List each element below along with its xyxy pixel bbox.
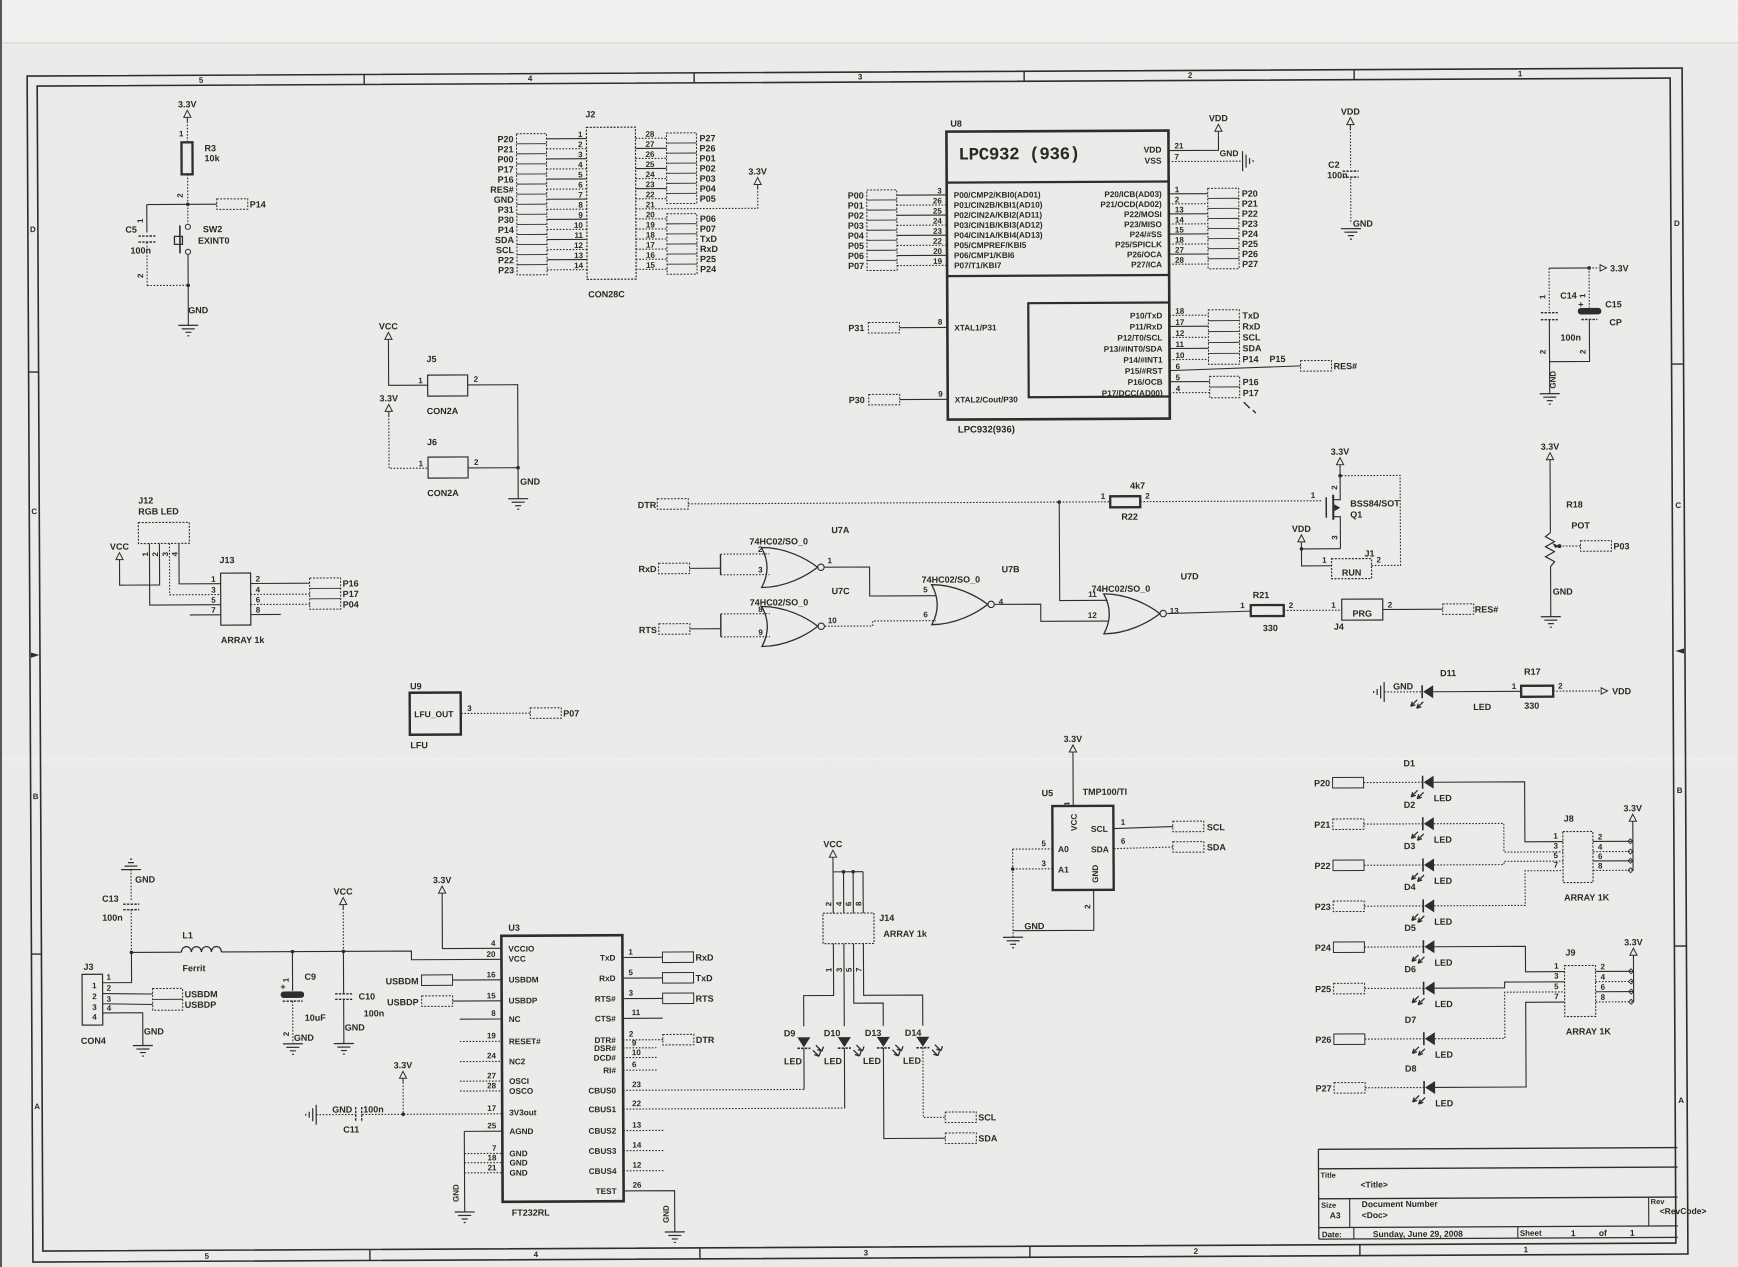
svg-text:R18: R18 (1566, 500, 1583, 510)
svg-text:P24/#SS: P24/#SS (1130, 230, 1163, 239)
svg-text:22: 22 (632, 1099, 641, 1108)
svg-text:GND: GND (1091, 865, 1100, 883)
svg-text:VDD: VDD (1209, 113, 1229, 123)
svg-text:P07/T1/KBI7: P07/T1/KBI7 (954, 261, 1002, 270)
svg-text:1: 1 (1553, 832, 1558, 841)
wire DTR to R22 (688, 500, 1110, 506)
svg-text:2: 2 (176, 193, 185, 198)
svg-text:CON2A: CON2A (427, 406, 459, 416)
svg-text:7: 7 (578, 191, 583, 200)
net tag P24 (1315, 942, 1424, 953)
svg-text:SCL: SCL (496, 245, 515, 255)
svg-text:D: D (30, 225, 36, 234)
net tag P26 (1315, 1034, 1424, 1045)
svg-text:24: 24 (487, 1051, 496, 1060)
svg-text:3: 3 (629, 989, 634, 998)
svg-text:P16: P16 (1243, 377, 1259, 387)
svg-text:USBDP: USBDP (509, 996, 538, 1005)
svg-text:18: 18 (646, 231, 655, 240)
svg-text:P24: P24 (700, 264, 716, 274)
svg-text:P17: P17 (343, 589, 359, 599)
svg-text:GND: GND (494, 195, 515, 205)
svg-text:GND: GND (345, 1022, 366, 1032)
svg-text:GND: GND (294, 1033, 315, 1043)
svg-text:74HC02/SO_0: 74HC02/SO_0 (1092, 584, 1151, 594)
svg-text:P17/DCC(AD00): P17/DCC(AD00) (1102, 389, 1163, 398)
svg-text:18: 18 (1175, 236, 1184, 245)
svg-text:1: 1 (1240, 601, 1245, 610)
U3 RTS# to RTS tag (623, 988, 714, 1004)
connector J12 RGB LED (138, 495, 189, 556)
svg-text:P23/MISO: P23/MISO (1124, 220, 1162, 229)
svg-text:A: A (34, 1102, 40, 1111)
net tag P23 (1315, 901, 1424, 912)
svg-text:PRG: PRG (1352, 609, 1372, 619)
power VCC (J12) (110, 541, 160, 585)
svg-text:5: 5 (923, 585, 928, 594)
svg-text:4: 4 (835, 901, 844, 906)
ground GND (C14/C15) (1540, 362, 1560, 405)
svg-text:RI#: RI# (603, 1066, 616, 1075)
svg-text:RxD: RxD (639, 564, 658, 574)
svg-text:<RevCode>: <RevCode> (1660, 1206, 1707, 1216)
svg-text:D4: D4 (1404, 882, 1416, 892)
svg-text:2: 2 (1558, 682, 1563, 691)
svg-text:LPC932 (936): LPC932 (936) (958, 145, 1079, 166)
svg-text:P01: P01 (848, 201, 864, 211)
net tag P03 (1580, 541, 1629, 552)
svg-text:RTS: RTS (696, 994, 714, 1004)
svg-text:USBDP: USBDP (185, 1000, 217, 1010)
svg-text:21: 21 (1174, 141, 1183, 150)
NOR gate U7C 74HC02 (721, 586, 851, 647)
net tag P31 / XTAL1 (848, 317, 997, 333)
diode D2 LED (1404, 800, 1453, 845)
IC U8 LPC932(936) body (946, 118, 1170, 436)
connector J6 CON2A (418, 437, 520, 498)
svg-text:2: 2 (151, 551, 160, 556)
svg-text:SCL: SCL (1207, 822, 1226, 832)
U8 serial port pins P10-P17 (1101, 307, 1208, 398)
svg-text:CBUS2: CBUS2 (589, 1127, 617, 1136)
svg-text:2: 2 (474, 375, 479, 384)
svg-text:8: 8 (1601, 993, 1606, 1002)
svg-text:2: 2 (1330, 485, 1339, 490)
svg-text:GND: GND (509, 1149, 527, 1158)
diode D7 LED (1405, 1015, 1454, 1060)
svg-text:23: 23 (632, 1080, 641, 1089)
svg-text:LFU_OUT: LFU_OUT (414, 709, 454, 719)
svg-text:2: 2 (107, 984, 112, 993)
svg-text:5: 5 (1553, 851, 1558, 860)
svg-text:P01: P01 (700, 153, 716, 163)
wire J12 pins to J13 (149, 543, 220, 605)
svg-text:P26/OCA: P26/OCA (1127, 250, 1162, 259)
ground GND (C13 top) (121, 859, 156, 901)
svg-text:7: 7 (855, 967, 864, 972)
svg-text:R3: R3 (204, 143, 216, 153)
svg-text:RTS: RTS (639, 625, 657, 635)
diode D11 LED (1411, 668, 1522, 713)
power 3.3V (R18) (1541, 442, 1560, 533)
capacitor C11 100n (343, 1104, 502, 1135)
svg-text:P14: P14 (498, 225, 514, 235)
svg-text:J5: J5 (427, 354, 437, 364)
svg-text:AGND: AGND (509, 1127, 533, 1136)
svg-text:SCL: SCL (1242, 332, 1261, 342)
svg-text:LED: LED (1435, 1098, 1454, 1108)
ground GND (C11) (306, 1105, 356, 1125)
svg-text:RESET#: RESET# (509, 1037, 541, 1046)
resistor array J14 ARRAY 1k (823, 913, 928, 973)
svg-text:SCL: SCL (978, 1112, 997, 1122)
svg-text:26: 26 (633, 1181, 642, 1190)
diode D3 LED (1404, 841, 1453, 886)
svg-text:P06: P06 (848, 251, 864, 261)
svg-text:VDD: VDD (1341, 107, 1361, 117)
IC U5 TMP100/TI (1042, 787, 1128, 890)
svg-text:D: D (1674, 219, 1680, 228)
net tags USBDM USBDP (U3) (386, 970, 502, 1007)
svg-text:P07: P07 (700, 224, 716, 234)
svg-text:TxD: TxD (700, 234, 718, 244)
svg-text:3.3V: 3.3V (433, 875, 452, 885)
svg-text:D7: D7 (1405, 1015, 1417, 1025)
svg-text:P05: P05 (700, 194, 716, 204)
wire J14 pin1 to D9 (803, 962, 833, 1026)
potentiometer R18 POT (1545, 499, 1591, 616)
power 3.3V (Q1 drain) (1331, 447, 1350, 469)
svg-text:P30: P30 (849, 395, 865, 405)
svg-text:3: 3 (467, 704, 472, 713)
svg-text:SDA: SDA (1091, 844, 1109, 854)
power VDD (C2) (1341, 107, 1361, 168)
svg-text:2: 2 (629, 1030, 634, 1039)
wire VCC bus to J14 top pins (824, 870, 863, 913)
svg-text:1: 1 (1538, 294, 1547, 299)
svg-text:LED: LED (1434, 876, 1453, 886)
svg-text:9: 9 (758, 628, 763, 637)
svg-text:CON28C: CON28C (588, 289, 625, 299)
svg-text:4: 4 (528, 74, 533, 83)
svg-text:1: 1 (825, 967, 834, 972)
svg-text:17: 17 (487, 1104, 496, 1113)
svg-text:DSR#: DSR# (594, 1044, 616, 1053)
svg-text:USBDM: USBDM (509, 975, 539, 984)
svg-text:6: 6 (578, 180, 583, 189)
svg-text:20: 20 (646, 210, 655, 219)
svg-text:23: 23 (933, 227, 942, 236)
svg-text:D6: D6 (1404, 964, 1416, 974)
svg-text:330: 330 (1263, 623, 1278, 633)
svg-text:GND: GND (1393, 681, 1414, 691)
svg-text:4: 4 (1598, 843, 1603, 852)
svg-text:10: 10 (574, 221, 583, 230)
svg-text:CON2A: CON2A (427, 488, 459, 498)
J2 left net tag stack P20..P23 (490, 134, 547, 276)
svg-text:VCC: VCC (823, 839, 843, 849)
svg-text:J6: J6 (427, 437, 437, 447)
svg-text:11: 11 (632, 1008, 641, 1017)
svg-text:D2: D2 (1404, 800, 1416, 810)
svg-text:RxD: RxD (1242, 321, 1261, 331)
svg-text:VSS: VSS (1145, 156, 1162, 166)
svg-text:21: 21 (488, 1163, 497, 1172)
power VDD (Q1 source) (1292, 524, 1341, 551)
wire J3 pin1 to rail (102, 951, 133, 983)
svg-text:3.3V: 3.3V (1623, 803, 1642, 813)
svg-text:3.3V: 3.3V (1331, 447, 1350, 457)
ground GND (SW2) (178, 305, 209, 336)
U3 DTR# to DTR tag (623, 1029, 715, 1045)
svg-text:18: 18 (488, 1153, 497, 1162)
svg-text:3: 3 (161, 551, 170, 556)
svg-text:10k: 10k (205, 153, 221, 163)
svg-text:P10/TxD: P10/TxD (1130, 311, 1162, 320)
svg-text:USBDM: USBDM (386, 976, 419, 986)
svg-text:ARRAY 1k: ARRAY 1k (883, 929, 928, 939)
svg-text:1: 1 (141, 552, 150, 557)
svg-text:RTS#: RTS# (595, 995, 616, 1004)
svg-text:2: 2 (136, 273, 145, 278)
svg-text:A3: A3 (1330, 1210, 1341, 1220)
svg-text:74HC02/SO_0: 74HC02/SO_0 (922, 574, 981, 584)
svg-text:GND: GND (1220, 148, 1239, 158)
wire VCC rail to U3 (221, 950, 501, 961)
U3 ground pins to GND (451, 1121, 502, 1222)
svg-text:10: 10 (632, 1048, 641, 1057)
svg-text:1: 1 (418, 376, 423, 385)
svg-text:P23: P23 (1242, 219, 1258, 229)
svg-text:P05: P05 (848, 241, 864, 251)
svg-text:18: 18 (1175, 307, 1184, 316)
svg-text:2: 2 (1538, 349, 1547, 354)
svg-text:P13/#INT0/SDA: P13/#INT0/SDA (1104, 345, 1163, 354)
svg-text:RES#: RES# (490, 185, 514, 195)
svg-text:2: 2 (824, 901, 833, 906)
svg-text:8: 8 (1598, 861, 1603, 870)
svg-text:3: 3 (211, 586, 216, 595)
svg-text:LED: LED (824, 1056, 843, 1066)
wire U7D out to R21 (1167, 601, 1251, 613)
J2 right upper tag stack P27..P05 (635, 129, 715, 204)
svg-text:P25: P25 (1315, 984, 1331, 994)
U3 TxD to RxD tag (622, 947, 714, 963)
svg-text:P04: P04 (700, 184, 716, 194)
svg-text:3: 3 (578, 150, 583, 159)
net tag P27 (1316, 1082, 1425, 1093)
svg-text:BSS84/SOT: BSS84/SOT (1350, 498, 1400, 508)
diode D9 LED (784, 1028, 824, 1089)
U3 unconnected left stubs (460, 1009, 502, 1091)
svg-text:4: 4 (999, 597, 1004, 606)
svg-text:1: 1 (1101, 492, 1106, 501)
svg-text:CBUS3: CBUS3 (589, 1147, 617, 1156)
svg-text:P00: P00 (848, 191, 864, 201)
U3 CBUS1 wire to D10 (623, 1098, 845, 1109)
jumper J1 RUN (1301, 474, 1401, 579)
svg-text:CON4: CON4 (81, 1036, 106, 1046)
svg-text:TxD: TxD (1242, 311, 1260, 321)
svg-text:A: A (1678, 1096, 1684, 1105)
U5 A0 A1 wires (1011, 839, 1053, 871)
capacitor C13 100n (102, 894, 139, 953)
power VCC (C10) (334, 887, 354, 954)
svg-text:1: 1 (1121, 818, 1126, 827)
svg-text:XTAL1/P31: XTAL1/P31 (954, 323, 997, 332)
connector J3 CON4 (80, 962, 105, 1046)
svg-text:6: 6 (256, 595, 261, 604)
svg-text:L1: L1 (182, 930, 193, 940)
svg-text:2: 2 (1083, 904, 1092, 909)
svg-text:B: B (33, 792, 39, 801)
U3 left pin labels (508, 945, 541, 1178)
svg-text:J2: J2 (585, 109, 595, 119)
net tag DTR (638, 499, 689, 510)
inductor L1 Ferrit (131, 930, 221, 973)
svg-text:U3: U3 (508, 923, 520, 933)
svg-text:SDA: SDA (978, 1133, 998, 1143)
svg-text:U5: U5 (1042, 788, 1054, 798)
svg-text:16: 16 (646, 251, 655, 260)
svg-text:NC2: NC2 (509, 1057, 526, 1066)
svg-text:P26: P26 (699, 143, 715, 153)
svg-text:R22: R22 (1121, 512, 1138, 522)
svg-text:LED: LED (903, 1056, 922, 1066)
svg-text:VCC: VCC (334, 887, 354, 897)
U8 P16 P17 tag stack (1170, 376, 1259, 413)
svg-text:TEST: TEST (596, 1187, 617, 1196)
svg-text:3: 3 (1330, 535, 1339, 540)
svg-text:P20: P20 (1242, 189, 1258, 199)
wire DTR node to U7D in 11 (1059, 502, 1107, 601)
svg-text:1: 1 (1331, 601, 1336, 610)
svg-text:LED: LED (1434, 958, 1453, 968)
svg-text:330: 330 (1524, 701, 1539, 711)
svg-text:CP: CP (1609, 317, 1622, 327)
svg-text:2: 2 (282, 1031, 291, 1036)
net tag P22 (1314, 860, 1423, 871)
svg-text:P15: P15 (1270, 354, 1286, 364)
svg-text:SCL: SCL (1091, 824, 1108, 834)
svg-text:2: 2 (1376, 555, 1381, 564)
svg-text:LFU: LFU (410, 740, 428, 750)
svg-text:P05/CMPREF/KBI5: P05/CMPREF/KBI5 (954, 241, 1027, 250)
svg-text:P11/RxD: P11/RxD (1130, 322, 1163, 331)
svg-text:C2: C2 (1328, 160, 1340, 170)
svg-text:LED: LED (863, 1056, 882, 1066)
resistor array J9 ARRAY 1K (1564, 947, 1633, 1036)
wire D1 to J8 pin1 (1434, 782, 1563, 843)
wire D6 to J9 pin3 (1435, 972, 1565, 989)
svg-text:3V3out: 3V3out (509, 1108, 537, 1117)
svg-text:P23: P23 (498, 265, 514, 275)
svg-text:10: 10 (1175, 351, 1184, 360)
svg-text:28: 28 (645, 130, 654, 139)
svg-text:P20/ICB(AD03): P20/ICB(AD03) (1104, 190, 1162, 199)
svg-text:P03: P03 (1613, 541, 1629, 551)
svg-text:U8: U8 (950, 119, 962, 129)
svg-text:J9: J9 (1565, 948, 1575, 958)
NOR gate U7A 74HC02 (720, 525, 850, 588)
svg-text:25: 25 (487, 1121, 496, 1130)
svg-text:28: 28 (487, 1081, 496, 1090)
svg-text:3.3V: 3.3V (1624, 937, 1643, 947)
svg-text:CTS#: CTS# (595, 1014, 616, 1023)
svg-text:3.3V: 3.3V (1610, 263, 1629, 273)
svg-text:26: 26 (933, 196, 942, 205)
wire U7A out to U7B in 5 (825, 567, 936, 597)
svg-text:1: 1 (1571, 1228, 1576, 1238)
svg-text:P21: P21 (1242, 199, 1258, 209)
svg-text:2: 2 (474, 458, 479, 467)
power tag VDD (R17) (1601, 686, 1632, 696)
U8 left tag stack P00..P07 (848, 190, 897, 271)
svg-text:P16: P16 (343, 578, 359, 588)
svg-text:100n: 100n (102, 913, 123, 923)
IC U9 LFU (410, 681, 531, 751)
ground GND (C2) (1341, 219, 1374, 240)
svg-text:Sheet: Sheet (1520, 1229, 1542, 1238)
svg-text:1: 1 (211, 575, 216, 584)
diode D14 LED (903, 1028, 945, 1118)
svg-text:ARRAY 1k: ARRAY 1k (221, 635, 266, 645)
svg-text:DCD#: DCD# (594, 1054, 617, 1063)
U8 TxD RxD SCL SDA P14 tag stack (1208, 310, 1262, 365)
svg-text:ARRAY 1K: ARRAY 1K (1564, 892, 1610, 902)
svg-text:D3: D3 (1404, 841, 1416, 851)
svg-text:13: 13 (1170, 606, 1179, 615)
svg-text:8: 8 (578, 201, 583, 210)
svg-text:2: 2 (1175, 195, 1180, 204)
svg-text:3: 3 (835, 967, 844, 972)
svg-text:4: 4 (534, 1250, 539, 1259)
U3 right pin labels (588, 954, 617, 1197)
svg-text:P24: P24 (1242, 229, 1258, 239)
svg-text:27: 27 (645, 140, 654, 149)
svg-text:6: 6 (923, 610, 928, 619)
capacitor C15 CP electrolytic (1549, 268, 1622, 362)
svg-text:RES#: RES# (1334, 361, 1358, 371)
svg-text:2: 2 (1388, 600, 1393, 609)
wire 3.3V rail (C14/C15) (1549, 263, 1629, 273)
svg-text:26: 26 (646, 150, 655, 159)
svg-text:4: 4 (578, 160, 583, 169)
svg-text:P00/CMP2/KBI0(AD01): P00/CMP2/KBI0(AD01) (954, 190, 1041, 199)
capacitor C5 100n (125, 204, 188, 285)
svg-text:3.3V: 3.3V (394, 1060, 413, 1070)
net tag P14 (217, 199, 266, 210)
svg-text:LED: LED (1434, 793, 1453, 803)
svg-text:17: 17 (1175, 318, 1184, 327)
svg-text:D14: D14 (905, 1028, 922, 1038)
U8 pin 7 VSS to GND (1169, 148, 1254, 171)
svg-text:J8: J8 (1564, 814, 1574, 824)
svg-text:20: 20 (933, 247, 942, 256)
power 3.3V (J9) (1624, 937, 1643, 1002)
capacitor C2 100n (1327, 160, 1359, 224)
svg-text:EXINT0: EXINT0 (198, 236, 230, 246)
svg-text:7: 7 (492, 1144, 497, 1153)
svg-text:GND: GND (452, 1184, 461, 1202)
svg-text:19: 19 (487, 1031, 496, 1040)
svg-text:14: 14 (574, 261, 583, 270)
svg-text:1: 1 (1554, 962, 1559, 971)
U8 right pins P20-P27 (1100, 185, 1208, 269)
ground GND (J5/J6) (508, 468, 541, 510)
svg-text:P21/OCD(AD02): P21/OCD(AD02) (1100, 200, 1162, 209)
svg-text:24: 24 (933, 217, 942, 226)
